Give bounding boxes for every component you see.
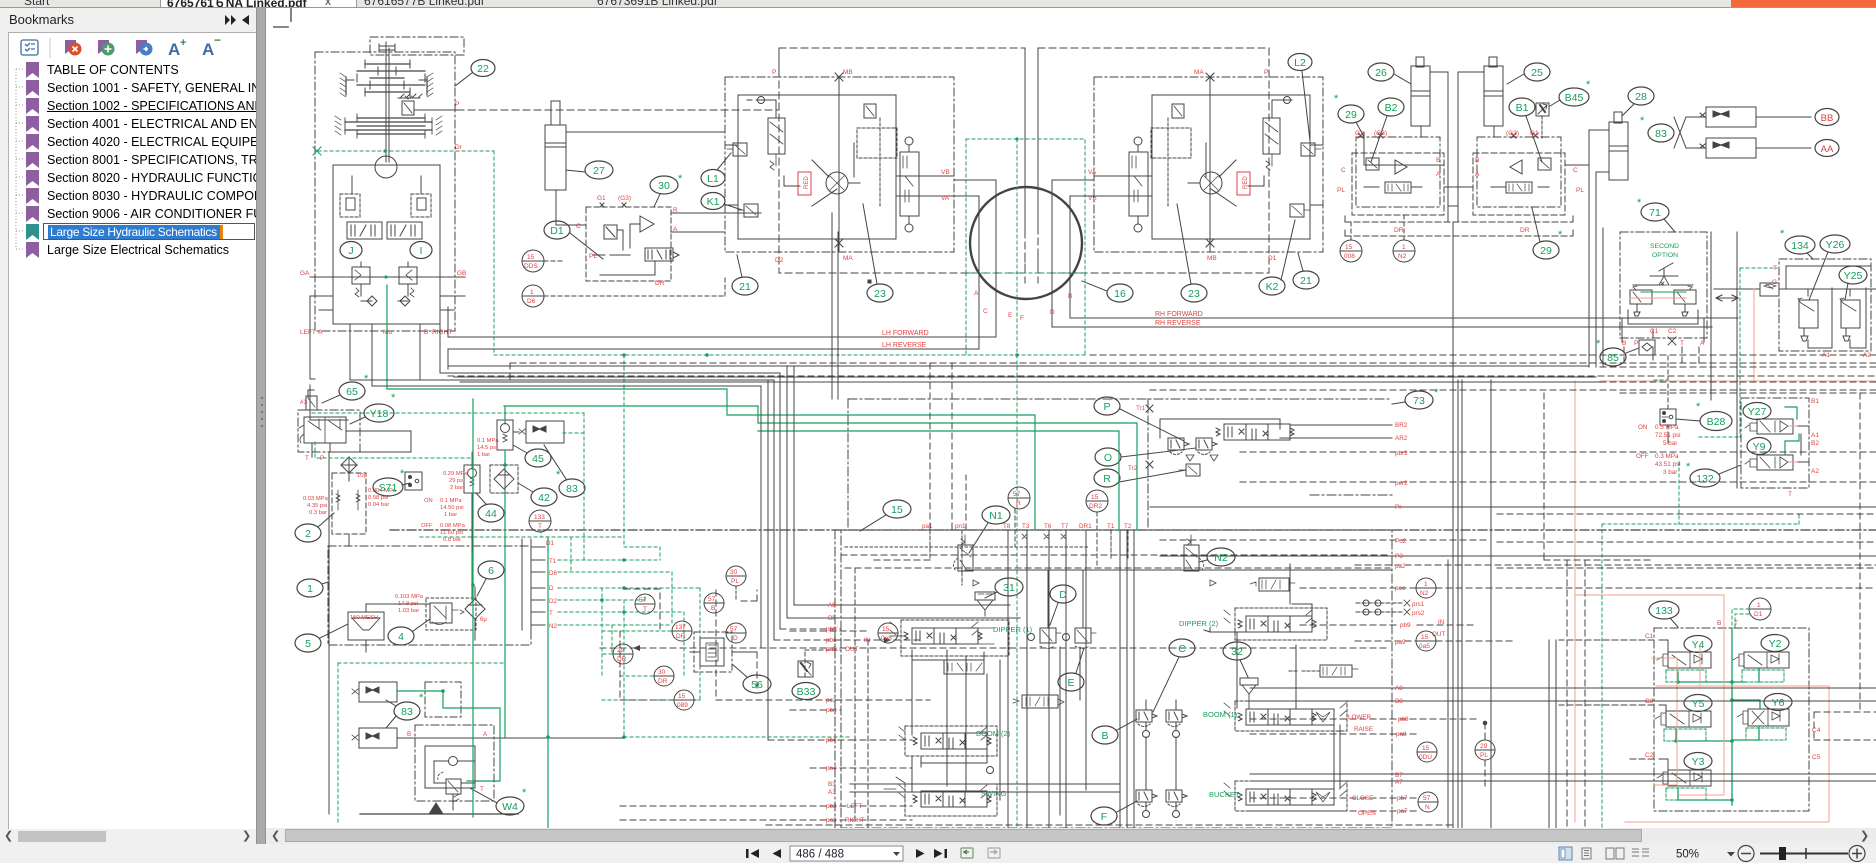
gray bus wires bbox=[350, 213, 1603, 740]
svg-text:15: 15 bbox=[882, 626, 890, 633]
svg-text:0.5 MPa: 0.5 MPa bbox=[1655, 424, 1679, 431]
red labels right motor bbox=[1088, 69, 1277, 262]
svg-text:B: B bbox=[1436, 157, 1440, 164]
valve body internal verticals bbox=[855, 564, 1340, 828]
spool sub boxes dashed bbox=[901, 608, 1347, 816]
wire LH FORWARD/REVERSE bbox=[448, 307, 996, 369]
svg-text:1 bar: 1 bar bbox=[444, 512, 457, 518]
bowtie 83 bottom pair bbox=[352, 682, 624, 748]
labels Y18 bbox=[305, 455, 324, 462]
svg-text:D: D bbox=[733, 635, 738, 642]
svg-text:*: * bbox=[1780, 228, 1785, 240]
wire Dr green dashed bbox=[313, 147, 494, 355]
callout 45 bbox=[513, 445, 551, 467]
left travel motor group 21 bbox=[725, 48, 1025, 283]
svg-text:83: 83 bbox=[401, 706, 413, 718]
svg-text:T2: T2 bbox=[1124, 523, 1132, 530]
svg-text:Dr: Dr bbox=[455, 144, 463, 151]
svg-text:Tr1: Tr1 bbox=[1136, 405, 1146, 412]
svg-text:(G3): (G3) bbox=[1506, 130, 1519, 137]
cylinder 27 bbox=[545, 101, 725, 225]
red callout texts BB AA bbox=[1821, 113, 1834, 155]
svg-text:T: T bbox=[549, 610, 553, 617]
W4 assembly bbox=[415, 725, 494, 810]
check valve 85 bbox=[1639, 340, 1655, 355]
labels 132 bbox=[1788, 398, 1819, 498]
circle 133/T bbox=[529, 510, 551, 532]
svg-text:VA: VA bbox=[1088, 169, 1097, 176]
svg-text:PL: PL bbox=[589, 253, 597, 260]
svg-text:A7: A7 bbox=[1395, 779, 1403, 786]
callout 15 bbox=[860, 500, 911, 531]
svg-text:0.04 bar: 0.04 bar bbox=[368, 502, 389, 508]
svg-text:A: A bbox=[1436, 171, 1441, 178]
svg-text:56: 56 bbox=[751, 679, 763, 691]
callout Y2 bbox=[1761, 635, 1789, 652]
svg-text:T3: T3 bbox=[1022, 523, 1030, 530]
svg-text:Y3: Y3 bbox=[1692, 756, 1705, 768]
svg-text:B8: B8 bbox=[1395, 698, 1403, 705]
wires top right group bbox=[1345, 132, 1589, 560]
svg-text:C: C bbox=[1341, 167, 1346, 174]
svg-text:BR2: BR2 bbox=[1395, 422, 1408, 429]
callout Y5 bbox=[1684, 695, 1712, 712]
svg-text:pa5: pa5 bbox=[826, 646, 837, 653]
svg-text:0.103 MPa: 0.103 MPa bbox=[395, 594, 424, 600]
svg-text:PL: PL bbox=[1337, 187, 1345, 194]
labels 133 bbox=[1645, 620, 1821, 761]
svg-text:15: 15 bbox=[1091, 494, 1099, 501]
svg-text:008: 008 bbox=[1344, 253, 1355, 260]
red labels left motor bbox=[772, 69, 950, 264]
page crop marks bbox=[274, 8, 291, 27]
svg-text:21: 21 bbox=[739, 281, 751, 293]
svg-text:A: A bbox=[483, 731, 488, 738]
main green buses bbox=[387, 285, 1137, 530]
svg-text:*: * bbox=[522, 787, 527, 799]
funnel 31 bbox=[975, 592, 995, 616]
svg-text:W4: W4 bbox=[502, 801, 518, 813]
svg-text:*: * bbox=[1686, 461, 1691, 473]
svg-text:pb6: pb6 bbox=[826, 637, 837, 644]
svg-text:pb3: pb3 bbox=[826, 803, 837, 810]
svg-text:D: D bbox=[1050, 309, 1055, 316]
svg-text:PL: PL bbox=[731, 578, 739, 585]
svg-text:*: * bbox=[419, 692, 424, 704]
svg-text:0.3 MPa: 0.3 MPa bbox=[1655, 453, 1679, 460]
svg-text:1: 1 bbox=[307, 583, 313, 595]
manifold port block bbox=[522, 539, 557, 630]
svg-text:PL: PL bbox=[1576, 187, 1584, 194]
svg-text:A: A bbox=[202, 40, 214, 59]
svg-text:B2: B2 bbox=[1811, 440, 1819, 447]
callout 22 bbox=[455, 60, 495, 87]
svg-text:T: T bbox=[480, 786, 484, 793]
svg-text:(G3): (G3) bbox=[618, 195, 631, 202]
bowtie valve 83 mid bbox=[514, 421, 564, 443]
svg-text:pa8: pa8 bbox=[1396, 731, 1407, 738]
svg-text:83: 83 bbox=[1655, 128, 1667, 140]
svg-text:0.1 MPa: 0.1 MPa bbox=[440, 498, 462, 504]
svg-text:16: 16 bbox=[1114, 288, 1126, 300]
svg-text:6: 6 bbox=[488, 565, 494, 577]
callout 1 bbox=[297, 579, 328, 597]
bowtie valves 83 top right bbox=[1674, 107, 1811, 158]
callout 83 topright bbox=[1640, 115, 1674, 142]
svg-text:14.5 psi: 14.5 psi bbox=[477, 445, 497, 451]
svg-text:pb6': pb6' bbox=[826, 626, 838, 633]
svg-text:N2: N2 bbox=[1420, 590, 1429, 597]
circle 15/0a8 bbox=[878, 623, 898, 643]
svg-text:D1: D1 bbox=[1754, 611, 1763, 618]
valve Y5 bbox=[1655, 711, 1711, 741]
svg-text:R: R bbox=[1016, 500, 1021, 507]
solenoid block 133 bbox=[1559, 628, 1809, 811]
callout texts bbox=[305, 57, 1862, 823]
svg-text:C2: C2 bbox=[1645, 752, 1654, 759]
svg-text:B: B bbox=[1068, 293, 1072, 300]
svg-text:P: P bbox=[1634, 340, 1638, 347]
svg-text:B28: B28 bbox=[1707, 416, 1726, 428]
callout 30 bbox=[650, 173, 683, 207]
bookmark tree bbox=[9, 61, 255, 261]
svg-text:30: 30 bbox=[658, 669, 666, 676]
svg-text:RH REVERSE: RH REVERSE bbox=[1155, 320, 1201, 327]
svg-text:MA: MA bbox=[843, 255, 853, 262]
circle 57/D bbox=[726, 623, 746, 643]
filter assembly 2 bbox=[332, 457, 366, 546]
callout I bbox=[410, 242, 432, 259]
valve N1 bbox=[953, 535, 979, 586]
svg-text:29 psi: 29 psi bbox=[449, 478, 464, 484]
svg-text:10μ: 10μ bbox=[357, 473, 367, 479]
callout BB bbox=[1815, 109, 1839, 126]
svg-text:RH FORWARD: RH FORWARD bbox=[1155, 311, 1203, 318]
svg-text:133: 133 bbox=[1655, 605, 1673, 617]
spool BOOM 1 bbox=[1203, 703, 1346, 725]
svg-text:*: * bbox=[1558, 229, 1563, 241]
svg-text:*: * bbox=[1696, 401, 1701, 413]
callout F bbox=[1091, 801, 1137, 825]
svg-text:DR2: DR2 bbox=[1089, 503, 1102, 510]
port labels swivel bbox=[974, 290, 1072, 322]
green dashed links to circles bbox=[600, 631, 850, 737]
svg-text:OFF: OFF bbox=[421, 523, 433, 529]
svg-text:D1: D1 bbox=[546, 540, 554, 547]
callout O bbox=[1095, 448, 1196, 466]
svg-text:A3: A3 bbox=[828, 789, 836, 796]
wire Y18 out bbox=[329, 431, 411, 814]
travel control assembly 22 bbox=[315, 37, 464, 331]
svg-text:B33: B33 bbox=[797, 686, 816, 698]
red text B28 on/off bbox=[1636, 424, 1681, 476]
callout 32 bbox=[1223, 642, 1251, 677]
svg-text:*: * bbox=[400, 468, 405, 480]
svg-text:P: P bbox=[772, 69, 776, 76]
small valve right column 2 bbox=[1289, 665, 1358, 677]
red labels valve 4 bbox=[395, 594, 424, 614]
callout 25 bbox=[1507, 63, 1550, 84]
svg-text:A: A bbox=[673, 226, 678, 233]
svg-text:0a8: 0a8 bbox=[881, 635, 892, 642]
svg-text:LEFT: LEFT bbox=[847, 803, 863, 810]
valve L1 bbox=[733, 143, 747, 156]
svg-text:0.08 MPa: 0.08 MPa bbox=[440, 523, 466, 529]
svg-text:15: 15 bbox=[1421, 634, 1429, 641]
port labels above y530 bbox=[922, 405, 1146, 530]
callout 56 bbox=[732, 664, 771, 693]
callout 23 left bbox=[863, 204, 893, 302]
callout AA bbox=[1815, 140, 1839, 157]
svg-text:P3: P3 bbox=[1395, 553, 1403, 560]
callout 23 right bbox=[1177, 204, 1207, 302]
svg-text:0DU: 0DU bbox=[1419, 754, 1432, 761]
svg-text:RED: RED bbox=[1243, 176, 1249, 189]
svg-text:29: 29 bbox=[1345, 109, 1357, 121]
double arrow symbol bbox=[1716, 295, 1738, 301]
pump circle on 22 bbox=[375, 156, 397, 178]
callout 44 bbox=[476, 493, 504, 522]
svg-text:1: 1 bbox=[1424, 581, 1428, 588]
svg-text:T: T bbox=[538, 523, 542, 530]
circle 57/R bbox=[1008, 487, 1030, 547]
svg-text:A: A bbox=[1475, 171, 1480, 178]
spool SWING bbox=[884, 777, 1007, 807]
circle 1/N2 top bbox=[1393, 215, 1415, 262]
svg-text:A1: A1 bbox=[1811, 432, 1819, 439]
valve 44 bbox=[464, 452, 480, 553]
svg-text:ON: ON bbox=[1638, 424, 1648, 431]
svg-text:23: 23 bbox=[874, 288, 886, 300]
svg-text:15: 15 bbox=[1345, 244, 1353, 251]
callout 4 bbox=[388, 619, 430, 645]
callout P bbox=[1094, 397, 1184, 441]
swivel joint circle 16 bbox=[954, 48, 1094, 828]
svg-text:4.35 psi: 4.35 psi bbox=[307, 503, 327, 509]
swing motor section bbox=[1146, 405, 1876, 540]
labels A B bottom bbox=[407, 731, 488, 738]
circle 1/D6 bbox=[522, 275, 725, 307]
svg-text:prs1: prs1 bbox=[1412, 601, 1425, 608]
callout K2 bbox=[1259, 220, 1295, 295]
valve K2 bbox=[1290, 204, 1304, 217]
svg-text:D: D bbox=[1059, 589, 1067, 601]
labels 134 bbox=[1772, 265, 1871, 359]
svg-text:VB: VB bbox=[941, 169, 950, 176]
valve 45 bbox=[497, 406, 513, 520]
callout 21 left bbox=[732, 255, 758, 295]
splitter bbox=[256, 8, 266, 844]
svg-text:poc: poc bbox=[1395, 585, 1405, 592]
red labels 30 bbox=[576, 195, 678, 287]
svg-text:150 MESH: 150 MESH bbox=[350, 615, 378, 621]
tank line bbox=[360, 803, 518, 814]
svg-text:B1: B1 bbox=[1516, 102, 1529, 114]
svg-text:OUT: OUT bbox=[845, 646, 858, 653]
right port wires bbox=[1160, 425, 1876, 811]
right area dashed wires bbox=[1544, 347, 1876, 828]
svg-text:BOOM (2): BOOM (2) bbox=[976, 729, 1011, 738]
callout E bbox=[1058, 648, 1084, 691]
svg-text:486 / 488: 486 / 488 bbox=[796, 849, 844, 861]
circle 57/B bbox=[704, 593, 724, 613]
svg-text:137: 137 bbox=[675, 624, 686, 631]
svg-text:DR: DR bbox=[617, 656, 627, 663]
svg-text:44: 44 bbox=[485, 508, 497, 520]
svg-text:32: 32 bbox=[1231, 646, 1243, 658]
svg-text:*: * bbox=[1334, 93, 1339, 105]
svg-text:BUCKET: BUCKET bbox=[1209, 790, 1240, 799]
valve group 29 left (B2) bbox=[1352, 133, 1444, 215]
svg-text:IN: IN bbox=[864, 637, 871, 644]
svg-text:5: 5 bbox=[305, 638, 311, 650]
callout 26 bbox=[1368, 63, 1411, 84]
svg-text:C1: C1 bbox=[1645, 633, 1654, 640]
left port wires bbox=[600, 605, 1456, 825]
circle 30/DR bbox=[654, 666, 674, 686]
callout Y9 bbox=[1747, 438, 1771, 455]
callout R bbox=[1094, 469, 1186, 487]
svg-text:B45: B45 bbox=[1565, 92, 1584, 104]
callout 65 bbox=[322, 373, 369, 403]
svg-text:OPTION: OPTION bbox=[1652, 252, 1678, 259]
callout 83 bottom bbox=[386, 692, 424, 728]
callout S71 bbox=[373, 468, 410, 496]
wires below travel control bbox=[310, 296, 465, 420]
svg-text:pa4: pa4 bbox=[826, 765, 837, 772]
S71 device bbox=[405, 472, 422, 490]
svg-text:15: 15 bbox=[891, 504, 903, 516]
callout 73 bbox=[1392, 387, 1439, 409]
callout 2 bbox=[295, 513, 334, 542]
svg-text:LH FORWARD: LH FORWARD bbox=[882, 330, 929, 337]
cylinder 28 bbox=[1589, 112, 1628, 228]
svg-text:0.29 MPa: 0.29 MPa bbox=[443, 471, 469, 477]
assembly 56 bbox=[690, 632, 756, 672]
B33 device bbox=[798, 650, 841, 677]
svg-text:1 bar: 1 bar bbox=[477, 452, 490, 458]
svg-text:Y25: Y25 bbox=[1844, 270, 1863, 282]
spool DIPPER 1 bbox=[890, 622, 1033, 674]
valve Y2 bbox=[1733, 652, 1789, 682]
spool BOOM 2 bbox=[899, 727, 1011, 774]
green wires 133 bbox=[1676, 609, 1760, 805]
box 134 bbox=[1714, 259, 1876, 351]
filter 42 bbox=[490, 465, 518, 493]
svg-text:DDS: DDS bbox=[524, 263, 538, 270]
cylinder 25 bbox=[1458, 57, 1503, 222]
callout Y26 bbox=[1809, 235, 1850, 300]
green wires 132 bbox=[1785, 407, 1799, 455]
toolbar icons bbox=[9, 33, 255, 63]
svg-text:LH REVERSE: LH REVERSE bbox=[882, 342, 927, 349]
cylinder 26 bbox=[1411, 57, 1448, 222]
svg-text:25: 25 bbox=[1531, 67, 1543, 79]
svg-text:28: 28 bbox=[1635, 91, 1647, 103]
svg-text:S71: S71 bbox=[379, 482, 398, 494]
svg-text:30: 30 bbox=[658, 180, 670, 192]
svg-text:85: 85 bbox=[1607, 352, 1619, 364]
svg-text:D1: D1 bbox=[550, 225, 564, 237]
svg-text:14.50 psi: 14.50 psi bbox=[440, 505, 464, 511]
svg-text:134: 134 bbox=[1791, 240, 1809, 252]
svg-text:3 bar: 3 bar bbox=[1663, 469, 1677, 476]
svg-text:OPEN: OPEN bbox=[1358, 810, 1376, 817]
svg-text:RAISE: RAISE bbox=[1354, 726, 1373, 733]
svg-text:0a5: 0a5 bbox=[1419, 643, 1430, 650]
svg-text:A5: A5 bbox=[828, 602, 836, 609]
valve group 29 right (B1) bbox=[1473, 133, 1565, 215]
svg-text:I: I bbox=[420, 245, 423, 257]
svg-text:43.51 psi: 43.51 psi bbox=[1655, 461, 1681, 468]
callout N1 bbox=[969, 506, 1010, 553]
svg-text:A8: A8 bbox=[1395, 685, 1403, 692]
black dashed buses bbox=[448, 355, 1876, 629]
svg-text:C: C bbox=[983, 308, 988, 315]
svg-text:D6: D6 bbox=[549, 570, 557, 577]
svg-text:1: 1 bbox=[1757, 602, 1761, 609]
svg-text:23: 23 bbox=[1188, 288, 1200, 300]
svg-text:SWING: SWING bbox=[981, 789, 1007, 798]
svg-text:E: E bbox=[1008, 312, 1013, 319]
svg-text:N1: N1 bbox=[989, 510, 1003, 522]
right port labels bbox=[1348, 422, 1445, 817]
svg-text:pb7: pb7 bbox=[1397, 795, 1408, 802]
callout 28 bbox=[1622, 87, 1654, 116]
right vertical wires bbox=[1448, 225, 1737, 828]
svg-text:B7: B7 bbox=[1395, 772, 1403, 779]
svg-text:B: B bbox=[424, 329, 428, 336]
callout 132 bbox=[1686, 461, 1741, 487]
svg-text:*: * bbox=[364, 373, 369, 385]
callout N2 bbox=[1199, 548, 1235, 566]
svg-text:N2: N2 bbox=[1214, 552, 1228, 564]
svg-text:089: 089 bbox=[677, 702, 688, 709]
svg-text:29: 29 bbox=[617, 647, 625, 654]
svg-text:T1: T1 bbox=[549, 558, 557, 565]
valve Y4 bbox=[1657, 652, 1711, 682]
svg-text:R: R bbox=[673, 207, 678, 214]
svg-text:G1: G1 bbox=[1355, 130, 1364, 137]
svg-text:T1: T1 bbox=[1107, 523, 1115, 530]
svg-text:30: 30 bbox=[730, 569, 738, 576]
svg-text:T: T bbox=[643, 606, 647, 613]
green vertical feeders bbox=[472, 399, 548, 860]
valves D and E bbox=[1028, 570, 1097, 649]
svg-text:A: A bbox=[974, 290, 979, 297]
callout B33 bbox=[792, 683, 820, 700]
svg-text:L1: L1 bbox=[707, 173, 719, 185]
svg-text:D1: D1 bbox=[1268, 255, 1277, 262]
svg-text:C: C bbox=[1573, 167, 1578, 174]
svg-text:MB: MB bbox=[843, 69, 853, 76]
svg-text:*: * bbox=[1586, 79, 1591, 91]
svg-text:OFF: OFF bbox=[1636, 453, 1649, 460]
callout 16 bbox=[1082, 281, 1133, 302]
svg-text:O: O bbox=[1104, 452, 1112, 464]
valve under dipper1 bbox=[1013, 695, 1064, 708]
svg-text:DR1: DR1 bbox=[1079, 523, 1092, 530]
red labels filter 2 bbox=[303, 473, 397, 516]
svg-text:PL: PL bbox=[1480, 752, 1488, 759]
svg-text:N2: N2 bbox=[1398, 253, 1407, 260]
svg-text:D: D bbox=[549, 585, 554, 592]
svg-text:B3: B3 bbox=[828, 781, 836, 788]
pilot manifold wires bbox=[841, 475, 1392, 828]
svg-text:(G3): (G3) bbox=[1374, 130, 1387, 137]
circle 15/008 bbox=[1340, 220, 1362, 262]
svg-text:G1: G1 bbox=[597, 195, 606, 202]
